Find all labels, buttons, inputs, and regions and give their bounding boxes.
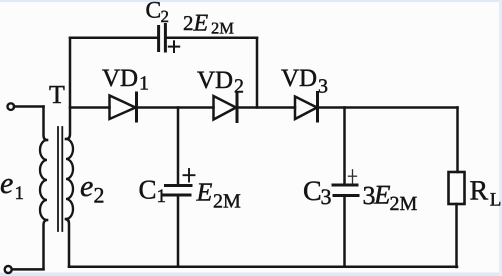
capacitor C1 plates <box>164 186 191 196</box>
wire: VD1 to VD2 <box>138 106 214 109</box>
svg-text:VD: VD <box>281 65 317 92</box>
label E2M <box>196 178 242 213</box>
label C1 <box>139 175 167 208</box>
plus sign of C1 <box>184 169 195 182</box>
wire: primary top lead <box>44 107 48 141</box>
svg-text:2M: 2M <box>390 193 418 215</box>
svg-text:E: E <box>196 178 213 207</box>
capacitor C1 bottom lead <box>177 197 180 267</box>
svg-text:T: T <box>49 80 65 109</box>
label e1 <box>0 167 24 204</box>
capacitor C3 plates <box>333 185 358 196</box>
svg-text:3: 3 <box>321 184 332 209</box>
label VD3 <box>281 65 328 98</box>
diode VD1 <box>110 96 136 120</box>
svg-text:C: C <box>139 175 157 205</box>
transformer secondary winding e2 <box>66 139 73 219</box>
wire: left vertical from top wire to transformer secondary <box>66 38 70 139</box>
page border top <box>0 0 502 2</box>
wire: right vertical down to resistor <box>456 108 459 173</box>
wire: bottom wire <box>69 266 457 269</box>
svg-text:R: R <box>470 176 489 207</box>
svg-text:1: 1 <box>157 186 167 207</box>
wire: top wire left segment to C2 <box>70 37 157 40</box>
page border right <box>499 0 502 276</box>
svg-text:C: C <box>303 176 322 207</box>
svg-text:E: E <box>193 11 209 37</box>
svg-text:E: E <box>373 180 391 210</box>
label VD2 <box>197 67 244 98</box>
diode VD3 <box>295 97 317 120</box>
label C2 <box>146 0 170 26</box>
wire: bottom terminal wire <box>14 268 44 271</box>
svg-text:2: 2 <box>161 7 170 26</box>
capacitor C1 top lead <box>177 108 180 184</box>
wire: resistor bottom lead <box>455 204 458 267</box>
wire: right vertical from top wire to VD2/VD3 node <box>256 38 259 108</box>
svg-text:VD: VD <box>102 65 138 92</box>
svg-text:2: 2 <box>94 183 105 208</box>
label e2 <box>80 170 105 208</box>
label RL <box>470 176 502 211</box>
page border bottom <box>0 273 502 276</box>
terminal top circle <box>8 103 15 110</box>
svg-text:e: e <box>0 167 13 200</box>
wire: VD2 to VD3 <box>239 106 296 109</box>
wire: top wire right segment from C2 <box>167 37 257 40</box>
wire: main horizontal, secondary to VD1 <box>70 106 110 109</box>
plus sign of C2 <box>169 41 179 52</box>
terminal bottom circle <box>5 266 12 273</box>
transformer primary winding e1 <box>40 140 47 220</box>
label 2E2M <box>183 11 234 38</box>
svg-text:1: 1 <box>15 183 25 204</box>
svg-text:2: 2 <box>234 76 244 98</box>
svg-text:VD: VD <box>197 67 233 94</box>
svg-text:3: 3 <box>318 76 328 98</box>
label VD1 <box>102 65 149 95</box>
capacitor C3 top lead <box>343 108 346 184</box>
capacitor C3 bottom lead <box>343 197 346 267</box>
svg-text:2: 2 <box>183 11 194 35</box>
label 3E2M <box>363 180 418 216</box>
transformer core <box>58 127 62 231</box>
svg-text:2M: 2M <box>213 191 241 213</box>
svg-text:L: L <box>490 190 502 211</box>
wire: primary bottom lead <box>44 220 48 269</box>
svg-text:2M: 2M <box>211 19 234 38</box>
diode VD2 <box>214 96 237 120</box>
wire: VD3 to right corner <box>319 106 458 109</box>
label C3 <box>303 176 332 209</box>
svg-text:e: e <box>80 170 93 203</box>
wire: top terminal to primary <box>14 105 44 108</box>
wire: secondary bottom lead <box>66 219 69 267</box>
plus sign of C3 <box>349 170 357 183</box>
svg-text:1: 1 <box>139 73 149 95</box>
capacitor C2 <box>159 25 166 52</box>
resistor RL <box>449 172 465 204</box>
svg-text:C: C <box>146 0 162 24</box>
